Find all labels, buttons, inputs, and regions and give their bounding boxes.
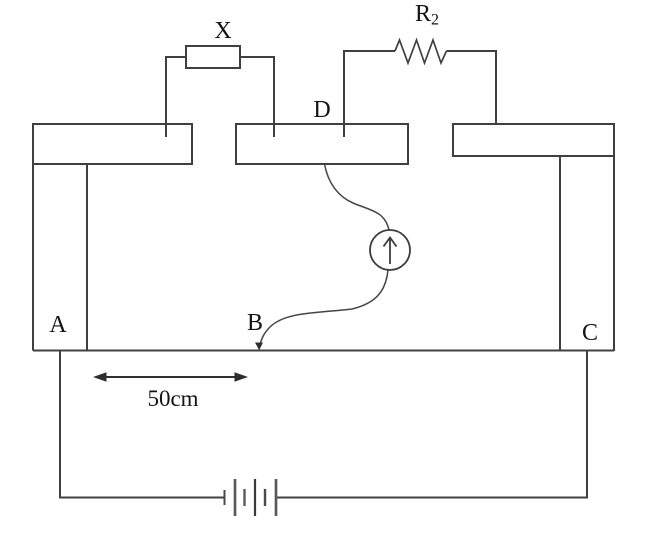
- jockey arrowhead at node B: [255, 343, 263, 351]
- copper strip left: [33, 124, 192, 164]
- copper strip middle (node D): [236, 124, 408, 164]
- dimension arrow 50 cm: [93, 372, 248, 382]
- copper strip right: [453, 124, 614, 156]
- bridge wire A-C: [33, 350, 560, 352]
- svg-text:50cm: 50cm: [147, 386, 198, 411]
- right end post (C column): [560, 156, 614, 351]
- wire: A post down to battery (left): [60, 352, 224, 498]
- svg-text:A: A: [49, 312, 67, 338]
- wire: left strip to resistor X: [166, 57, 186, 137]
- left end post (A column): [33, 164, 87, 351]
- battery (cells): [225, 479, 277, 516]
- wire: middle strip up to R2: [344, 51, 395, 137]
- resistor R2 (zigzag): [395, 40, 447, 63]
- svg-text:R2: R2: [415, 1, 439, 29]
- resistor X (box): [186, 46, 240, 68]
- wire: R2 to right strip: [447, 51, 497, 124]
- wire: middle strip D to galvanometer (curved): [325, 164, 390, 230]
- svg-text:X: X: [214, 18, 231, 44]
- svg-text:C: C: [582, 320, 598, 346]
- svg-text:B: B: [247, 310, 263, 336]
- wire: resistor X to middle strip: [240, 57, 274, 137]
- wire: battery to C post (right): [276, 351, 587, 498]
- svg-text:D: D: [313, 97, 330, 123]
- wire: galvanometer to jockey at B (curved): [260, 270, 388, 346]
- galvanometer (circle with arrow): [370, 230, 410, 270]
